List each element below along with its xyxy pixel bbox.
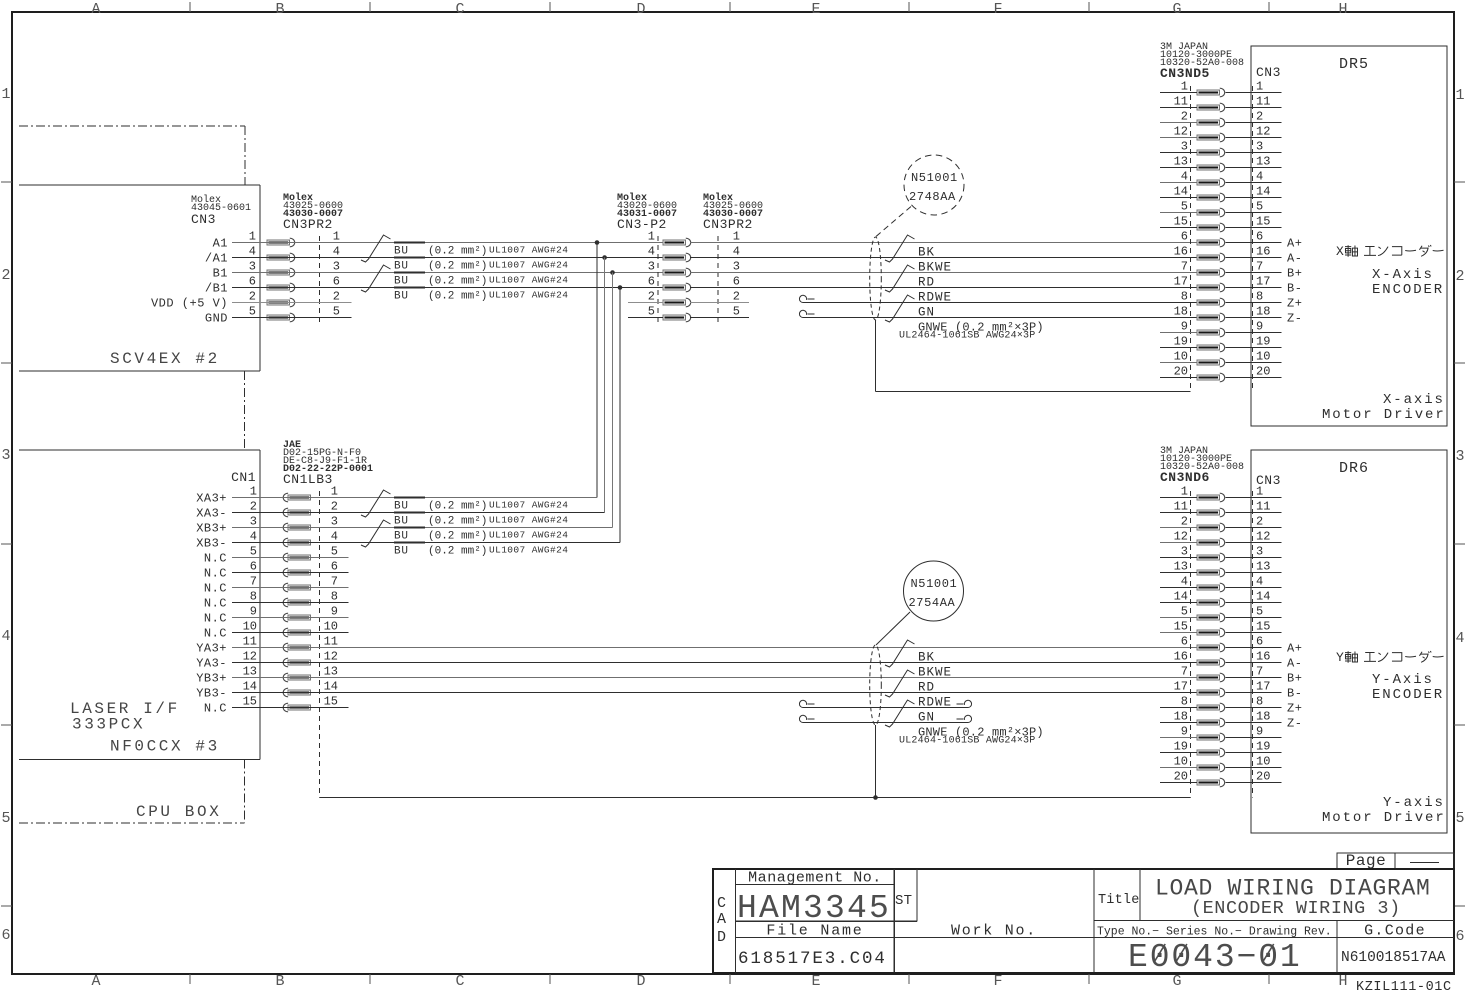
svg-text:6: 6 bbox=[1, 927, 10, 944]
svg-text:H: H bbox=[1338, 973, 1347, 990]
svg-text:6: 6 bbox=[1181, 230, 1188, 244]
svg-text:10: 10 bbox=[1174, 350, 1188, 364]
connector CN3ND6 contacts bbox=[1197, 493, 1225, 787]
svg-text:N51001: N51001 bbox=[911, 171, 958, 185]
svg-text:A-: A- bbox=[1287, 252, 1302, 266]
svg-text:10: 10 bbox=[1256, 755, 1270, 769]
frame zone ticks left bbox=[1, 182, 12, 906]
zone letters bottom bbox=[91, 973, 1347, 990]
svg-text:3: 3 bbox=[1181, 140, 1188, 154]
connector CN3ND5 contacts bbox=[1197, 88, 1225, 382]
svg-text:1: 1 bbox=[1256, 80, 1263, 94]
connector CN1LB3 part labels bbox=[283, 440, 373, 487]
svg-text:1: 1 bbox=[1181, 80, 1188, 94]
svg-text:3: 3 bbox=[648, 260, 655, 274]
svg-text:A: A bbox=[717, 911, 726, 928]
CN3ND5 pin numbers (left) bbox=[1174, 80, 1188, 379]
svg-text:4: 4 bbox=[1256, 575, 1263, 589]
svg-text:Motor Driver: Motor Driver bbox=[1322, 810, 1446, 826]
svg-text:3: 3 bbox=[1, 447, 10, 464]
svg-text:7: 7 bbox=[1181, 665, 1188, 679]
svg-text:11: 11 bbox=[1174, 500, 1188, 514]
CN1LB3 pin numbers (right column) bbox=[324, 485, 338, 709]
svg-text:17: 17 bbox=[1256, 680, 1270, 694]
GND stub into CN3-P2 bbox=[628, 317, 663, 319]
wire YA3- (to pin16) bbox=[232, 662, 1197, 664]
vertical wire XB3- riser bbox=[619, 288, 621, 543]
svg-text:4: 4 bbox=[1256, 170, 1263, 184]
Y-axis encoder label (Japanese) bbox=[1336, 650, 1444, 665]
svg-text:4: 4 bbox=[1181, 170, 1188, 184]
svg-text:18: 18 bbox=[1256, 710, 1270, 724]
svg-text:2: 2 bbox=[733, 290, 740, 304]
svg-text:14: 14 bbox=[324, 680, 338, 694]
svg-text:UL1007 AWG#24: UL1007 AWG#24 bbox=[489, 545, 568, 556]
svg-text:BU: BU bbox=[394, 291, 409, 303]
svg-text:(0.2 mm²): (0.2 mm²) bbox=[428, 531, 487, 543]
svg-text:(0.2 mm²): (0.2 mm²) bbox=[428, 516, 487, 528]
CAD vertical label bbox=[717, 895, 726, 946]
zone numbers left bbox=[1, 86, 10, 944]
svg-text:9: 9 bbox=[1181, 320, 1188, 334]
pigtail hook GNWE right (lower) bbox=[964, 715, 971, 722]
svg-text:/B1: /B1 bbox=[205, 282, 228, 296]
wire BK (to CN3ND5 pin6) bbox=[690, 242, 1197, 244]
svg-text:15: 15 bbox=[324, 695, 338, 709]
svg-text:(0.2 mm²): (0.2 mm²) bbox=[428, 276, 487, 288]
DR6 CN3 receptacle dashed line bbox=[1252, 491, 1254, 798]
svg-text:5: 5 bbox=[249, 305, 256, 319]
wire labels BU 0.2mm2 (upper) bbox=[394, 243, 568, 303]
svg-text:VDD (+5 V): VDD (+5 V) bbox=[151, 297, 228, 311]
svg-text:15: 15 bbox=[243, 695, 257, 709]
svg-text:N.C: N.C bbox=[204, 582, 227, 596]
svg-text:1: 1 bbox=[1181, 485, 1188, 499]
twisted pair symbol GN/GNWE bbox=[885, 295, 915, 322]
connector CN3-P2 contacts bbox=[663, 238, 691, 322]
twisted pair symbol RD/RDWE (lower) bbox=[885, 670, 915, 697]
svg-text:13: 13 bbox=[324, 665, 338, 679]
svg-text:UL1007 AWG#24: UL1007 AWG#24 bbox=[489, 290, 568, 301]
svg-text:14: 14 bbox=[243, 680, 257, 694]
svg-text:D: D bbox=[717, 929, 726, 946]
connector CN1LB3 contacts bbox=[283, 493, 310, 712]
svg-text:H: H bbox=[1338, 1, 1347, 18]
svg-text:6: 6 bbox=[1256, 635, 1263, 649]
svg-text:618517E3.C04: 618517E3.C04 bbox=[738, 949, 887, 969]
svg-text:N610018517AA: N610018517AA bbox=[1341, 950, 1446, 966]
svg-text:Type No.− Series No.− Drawing: Type No.− Series No.− Drawing Rev. bbox=[1097, 926, 1332, 939]
svg-text:14: 14 bbox=[1174, 185, 1188, 199]
svg-text:Z+: Z+ bbox=[1287, 297, 1302, 311]
CN3 pin name labels bbox=[151, 237, 228, 326]
wire VDD stub bbox=[232, 302, 352, 304]
svg-text:UL1007 AWG#24: UL1007 AWG#24 bbox=[489, 515, 568, 526]
svg-text:20: 20 bbox=[1174, 365, 1188, 379]
wire YB3+ (to pin7) bbox=[232, 677, 1197, 679]
wire YB3- (to pin17) bbox=[232, 692, 1197, 694]
CN3ND6 pin numbers (left) bbox=[1174, 485, 1188, 784]
svg-text:YA3+: YA3+ bbox=[196, 642, 227, 656]
svg-text:13: 13 bbox=[1256, 560, 1270, 574]
wire XA3+ bbox=[232, 497, 597, 499]
svg-text:GND: GND bbox=[205, 312, 228, 326]
CN3-P2 housing dashed line bbox=[657, 236, 659, 325]
svg-text:9: 9 bbox=[1181, 725, 1188, 739]
svg-text:(0.2 mm²): (0.2 mm²) bbox=[428, 291, 487, 303]
svg-text:CN1: CN1 bbox=[231, 470, 256, 485]
svg-text:UL1007 AWG#24: UL1007 AWG#24 bbox=[489, 260, 568, 271]
svg-text:17: 17 bbox=[1174, 275, 1188, 289]
svg-text:5: 5 bbox=[1, 810, 10, 827]
svg-text:18: 18 bbox=[1174, 710, 1188, 724]
svg-text:1: 1 bbox=[1, 86, 10, 103]
svg-text:3: 3 bbox=[331, 515, 338, 529]
svg-text:7: 7 bbox=[1256, 665, 1263, 679]
svg-text:10: 10 bbox=[243, 620, 257, 634]
svg-text:8: 8 bbox=[1256, 290, 1263, 304]
Page box bbox=[1337, 852, 1454, 870]
svg-text:2748AA: 2748AA bbox=[909, 190, 956, 204]
Management No. cell bbox=[737, 870, 891, 928]
svg-text:CPU BOX: CPU BOX bbox=[136, 803, 221, 821]
svg-text:N.C: N.C bbox=[204, 597, 227, 611]
twisted pair symbol RD/RDWE bbox=[885, 265, 915, 292]
wire GNWE (lower, floating) bbox=[803, 722, 968, 724]
svg-text:11: 11 bbox=[324, 635, 338, 649]
svg-text:1: 1 bbox=[249, 230, 256, 244]
svg-text:E: E bbox=[811, 1, 820, 18]
svg-text:18: 18 bbox=[1256, 305, 1270, 319]
svg-text:(0.2 mm²): (0.2 mm²) bbox=[428, 246, 487, 258]
svg-text:NF0CCX #3: NF0CCX #3 bbox=[110, 738, 220, 756]
svg-text:333PCX: 333PCX bbox=[72, 716, 145, 734]
pigtail hook GN (upper) bbox=[799, 295, 806, 302]
CN3-P2 pin numbers bbox=[648, 230, 655, 319]
svg-text:10: 10 bbox=[324, 620, 338, 634]
svg-text:15: 15 bbox=[1174, 620, 1188, 634]
svg-text:8: 8 bbox=[1256, 695, 1263, 709]
svg-text:A1: A1 bbox=[213, 237, 228, 251]
VDD stub into CN3-P2 bbox=[628, 302, 663, 304]
svg-text:9: 9 bbox=[250, 605, 257, 619]
svg-text:2: 2 bbox=[331, 500, 338, 514]
svg-text:RD: RD bbox=[918, 681, 935, 695]
wire color labels (upper cable) bbox=[899, 246, 1044, 342]
svg-text:(0.2 mm²): (0.2 mm²) bbox=[428, 261, 487, 273]
svg-text:20: 20 bbox=[1174, 770, 1188, 784]
svg-text:11: 11 bbox=[1174, 95, 1188, 109]
svg-text:6: 6 bbox=[250, 560, 257, 574]
svg-text:17: 17 bbox=[1174, 680, 1188, 694]
svg-text:Z-: Z- bbox=[1287, 717, 1302, 731]
svg-text:15: 15 bbox=[1256, 620, 1270, 634]
SCV4EX #2 board outline (dash-dot CPU-box boundary, upper) bbox=[19, 126, 245, 185]
svg-text:8: 8 bbox=[1181, 695, 1188, 709]
svg-text:YB3+: YB3+ bbox=[196, 672, 227, 686]
svg-text:B1: B1 bbox=[213, 267, 228, 281]
svg-text:5: 5 bbox=[1256, 605, 1263, 619]
svg-text:5: 5 bbox=[648, 305, 655, 319]
svg-text:RDWE: RDWE bbox=[918, 696, 952, 710]
frame zone ticks right bbox=[1454, 182, 1465, 906]
svg-text:15: 15 bbox=[1256, 215, 1270, 229]
twisted pair symbol XA3 bbox=[361, 490, 391, 517]
CN1 housing dashed line bbox=[259, 491, 261, 712]
svg-text:B: B bbox=[275, 973, 284, 990]
svg-text:N.C: N.C bbox=[204, 552, 227, 566]
pigtail hook GN left (lower) bbox=[799, 700, 806, 707]
svg-text:B: B bbox=[275, 1, 284, 18]
svg-text:5: 5 bbox=[1455, 810, 1464, 827]
X-Axis ENCODER label bbox=[1372, 267, 1444, 298]
svg-text:UL2464-1061SB AWG24×3P: UL2464-1061SB AWG24×3P bbox=[899, 736, 1035, 747]
DR6 box bbox=[1251, 450, 1447, 833]
pigtail hook GN right (lower) bbox=[964, 700, 971, 707]
svg-text:6: 6 bbox=[1256, 230, 1263, 244]
svg-text:14: 14 bbox=[1256, 185, 1270, 199]
svg-text:5: 5 bbox=[1256, 200, 1263, 214]
svg-text:A: A bbox=[91, 973, 100, 990]
svg-text:9: 9 bbox=[1256, 320, 1263, 334]
svg-text:2: 2 bbox=[333, 290, 340, 304]
twisted pair symbol A1//A1 bbox=[361, 235, 391, 262]
svg-text:X-Axis: X-Axis bbox=[1372, 267, 1434, 283]
svg-text:4: 4 bbox=[333, 245, 340, 259]
svg-text:7: 7 bbox=[1181, 260, 1188, 274]
wire BKWE (to pin16) bbox=[690, 257, 1197, 259]
svg-text:CN3: CN3 bbox=[1256, 65, 1281, 80]
svg-text:HAM3345: HAM3345 bbox=[737, 890, 891, 927]
svg-text:7: 7 bbox=[250, 575, 257, 589]
svg-text:Z+: Z+ bbox=[1287, 702, 1302, 716]
svg-text:UL1007 AWG#24: UL1007 AWG#24 bbox=[489, 245, 568, 256]
svg-text:C: C bbox=[717, 895, 726, 912]
DR5 box bbox=[1251, 46, 1447, 426]
svg-text:12: 12 bbox=[324, 650, 338, 664]
svg-text:20: 20 bbox=[1256, 770, 1270, 784]
svg-text:GN: GN bbox=[918, 306, 935, 320]
svg-text:1: 1 bbox=[250, 485, 257, 499]
svg-text:19: 19 bbox=[1174, 335, 1188, 349]
svg-text:G: G bbox=[1172, 1, 1181, 18]
svg-text:CN3-P2: CN3-P2 bbox=[617, 217, 667, 232]
svg-text:BKWE: BKWE bbox=[918, 261, 952, 275]
CN1 pin numbers (left column) bbox=[243, 485, 257, 709]
connector CN3ND5 part labels bbox=[1160, 42, 1244, 81]
svg-text:1: 1 bbox=[648, 230, 655, 244]
svg-text:4: 4 bbox=[1181, 575, 1188, 589]
svg-text:F: F bbox=[993, 1, 1002, 18]
svg-text:1: 1 bbox=[331, 485, 338, 499]
svg-text:11: 11 bbox=[1256, 500, 1270, 514]
svg-text:G.Code: G.Code bbox=[1364, 923, 1426, 940]
svg-text:5: 5 bbox=[333, 305, 340, 319]
svg-text:2: 2 bbox=[1256, 515, 1263, 529]
svg-text:N.C: N.C bbox=[204, 702, 227, 716]
svg-text:B+: B+ bbox=[1287, 672, 1302, 686]
svg-text:RDWE: RDWE bbox=[918, 291, 952, 305]
svg-text:4: 4 bbox=[331, 530, 338, 544]
CN3PR2 housing dashed line (right) bbox=[717, 236, 719, 325]
svg-text:15: 15 bbox=[1174, 215, 1188, 229]
svg-text:BKWE: BKWE bbox=[918, 666, 952, 680]
svg-text:F: F bbox=[993, 973, 1002, 990]
pigtail hook GNWE (upper) bbox=[799, 310, 806, 317]
zone letters top bbox=[91, 1, 1347, 18]
svg-text:BU: BU bbox=[394, 546, 409, 558]
svg-text:3: 3 bbox=[733, 260, 740, 274]
SCV4EX #2 box bbox=[19, 185, 260, 371]
DR5 CN3 pin numbers (right) bbox=[1256, 80, 1270, 379]
wire XB3- bbox=[232, 542, 620, 544]
wire RD (to pin7) bbox=[690, 272, 1197, 274]
DR5 CN3 pin wires bbox=[1226, 93, 1282, 378]
svg-text:13: 13 bbox=[1256, 155, 1270, 169]
File Name cell bbox=[738, 923, 887, 970]
svg-text:1: 1 bbox=[333, 230, 340, 244]
CN3PR2 pin numbers (right) bbox=[733, 230, 740, 319]
svg-text:B-: B- bbox=[1287, 282, 1302, 296]
svg-text:UL2464-1061SB AWG24×3P: UL2464-1061SB AWG24×3P bbox=[899, 331, 1035, 342]
svg-text:(ENCODER WIRING 3): (ENCODER WIRING 3) bbox=[1191, 898, 1401, 919]
twisted pair symbol BK/BKWE bbox=[885, 235, 915, 262]
svg-text:14: 14 bbox=[1256, 590, 1270, 604]
svg-text:2: 2 bbox=[249, 290, 256, 304]
svg-text:CN1LB3: CN1LB3 bbox=[283, 472, 333, 487]
connector CN3PR2 housing dashed line bbox=[319, 236, 321, 325]
vertical wire XA3+ riser bbox=[596, 243, 598, 498]
svg-text:3: 3 bbox=[250, 515, 257, 529]
svg-text:2: 2 bbox=[648, 290, 655, 304]
svg-text:6: 6 bbox=[331, 560, 338, 574]
svg-text:Management No.: Management No. bbox=[748, 870, 882, 887]
svg-text:BU: BU bbox=[394, 261, 409, 273]
svg-text:Page: Page bbox=[1346, 852, 1386, 870]
junction dots on A1-/B1 wires bbox=[595, 240, 623, 290]
Type No. row bbox=[1097, 923, 1446, 977]
svg-text:ST: ST bbox=[895, 893, 912, 909]
wire labels BU 0.2mm2 (lower) bbox=[394, 498, 568, 558]
svg-text:B+: B+ bbox=[1287, 267, 1302, 281]
svg-text:8: 8 bbox=[331, 590, 338, 604]
cable sheath ellipse (upper cable) bbox=[870, 237, 882, 320]
wire XA3- bbox=[232, 512, 605, 514]
svg-text:3: 3 bbox=[1256, 140, 1263, 154]
svg-text:Y: Y bbox=[1336, 650, 1344, 665]
svg-text:13: 13 bbox=[243, 665, 257, 679]
zone numbers right bbox=[1455, 87, 1464, 945]
svg-text:12: 12 bbox=[243, 650, 257, 664]
svg-text:1: 1 bbox=[1455, 87, 1464, 104]
svg-text:E0043−01: E0043−01 bbox=[1128, 939, 1302, 976]
wire RDWE (to pin17) bbox=[690, 287, 1197, 289]
frame zone ticks bottom bbox=[190, 974, 1269, 984]
wire /B1 bbox=[232, 287, 663, 289]
svg-text:6: 6 bbox=[1181, 635, 1188, 649]
svg-text:BU: BU bbox=[394, 246, 409, 258]
svg-text:4: 4 bbox=[733, 245, 740, 259]
svg-text:12: 12 bbox=[1174, 125, 1188, 139]
svg-text:Y-axis: Y-axis bbox=[1383, 795, 1445, 811]
CN1 pin name labels bbox=[196, 492, 227, 716]
DR6 CN3 pin wires bbox=[1226, 498, 1282, 783]
svg-text:C: C bbox=[455, 973, 464, 990]
svg-text:12: 12 bbox=[1174, 530, 1188, 544]
svg-text:YA3-: YA3- bbox=[196, 657, 227, 671]
svg-text:UL1007 AWG#24: UL1007 AWG#24 bbox=[489, 500, 568, 511]
dash-dot boundary between SCV4EX and LASER I/F bbox=[244, 371, 246, 450]
svg-text:8: 8 bbox=[1181, 290, 1188, 304]
balloon N51001 2754AA (solid) bbox=[876, 561, 964, 645]
svg-text:9: 9 bbox=[1256, 725, 1263, 739]
N.C pin stubs CN1 bbox=[232, 558, 349, 708]
svg-text:10: 10 bbox=[1174, 755, 1188, 769]
Title cell bbox=[1098, 876, 1431, 920]
svg-text:2: 2 bbox=[1256, 110, 1263, 124]
svg-text:16: 16 bbox=[1256, 650, 1270, 664]
svg-text:3: 3 bbox=[1256, 545, 1263, 559]
twisted pair symbol BK/BKWE (lower) bbox=[885, 640, 915, 667]
wire GNWE tail from CN3-P2 pin5 bbox=[690, 317, 749, 319]
svg-text:C: C bbox=[455, 1, 464, 18]
CN3ND5 housing dashed line bbox=[1190, 86, 1192, 392]
svg-text:A: A bbox=[91, 1, 100, 18]
svg-text:A-: A- bbox=[1287, 657, 1302, 671]
wire YA3+ (to CN3ND6 pin6) bbox=[232, 647, 1197, 649]
wire GNWE to CN3ND5 pin18 bbox=[803, 317, 1197, 319]
svg-text:XB3-: XB3- bbox=[196, 537, 227, 551]
Y-axis Motor Driver label bbox=[1322, 795, 1446, 826]
connector CN3PR2 part labels bbox=[283, 192, 343, 232]
pigtail hook GNWE left (lower) bbox=[799, 715, 806, 722]
CN3 housing dashed line bbox=[259, 236, 261, 325]
svg-text:19: 19 bbox=[1256, 740, 1270, 754]
svg-text:17: 17 bbox=[1256, 275, 1270, 289]
svg-text:N51001: N51001 bbox=[911, 577, 958, 591]
svg-text:X: X bbox=[1336, 244, 1344, 259]
svg-text:UL1007 AWG#24: UL1007 AWG#24 bbox=[489, 530, 568, 541]
svg-text:5: 5 bbox=[1181, 605, 1188, 619]
CPU BOX dash-dot boundary (lower) bbox=[19, 760, 245, 824]
svg-text:18: 18 bbox=[1174, 305, 1188, 319]
svg-text:CN3PR2: CN3PR2 bbox=[703, 217, 753, 232]
svg-text:4: 4 bbox=[250, 530, 257, 544]
LASER I/F box bbox=[19, 450, 260, 760]
svg-text:20: 20 bbox=[1256, 365, 1270, 379]
wire XB3+ bbox=[232, 527, 613, 529]
svg-text:Motor Driver: Motor Driver bbox=[1322, 407, 1446, 423]
connector CN3 (SCV4EX) part labels bbox=[191, 194, 251, 227]
svg-text:7: 7 bbox=[331, 575, 338, 589]
wire GN to CN3ND5 pin8 bbox=[803, 302, 1197, 304]
svg-text:3: 3 bbox=[333, 260, 340, 274]
svg-text:6: 6 bbox=[733, 275, 740, 289]
svg-text:6: 6 bbox=[249, 275, 256, 289]
wire GN (lower, floating) bbox=[803, 707, 968, 709]
svg-text:(0.2 mm²): (0.2 mm²) bbox=[428, 546, 487, 558]
title block frame bbox=[713, 869, 1454, 973]
svg-text:N.C: N.C bbox=[204, 612, 227, 626]
connector CN3ND6 part labels bbox=[1160, 446, 1244, 485]
svg-text:GN: GN bbox=[918, 711, 935, 725]
cable sheath ellipse (lower cable) bbox=[870, 645, 882, 725]
svg-text:BK: BK bbox=[918, 246, 935, 260]
svg-text:11: 11 bbox=[243, 635, 257, 649]
svg-text:16: 16 bbox=[1174, 650, 1188, 664]
frame zone ticks top bbox=[190, 2, 1269, 12]
wire /A1 bbox=[232, 257, 663, 259]
